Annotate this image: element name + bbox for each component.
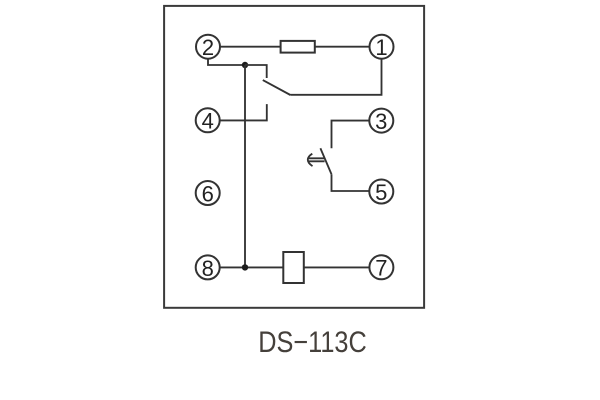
svg-text:5: 5 [375,180,387,205]
wire node A to fixed contact stub [245,65,267,78]
wire terminal 2 down to node A [208,59,245,65]
wire terminal 1 down to blade K1 [290,59,381,95]
svg-text:2: 2 [202,35,214,60]
svg-text:3: 3 [375,109,387,134]
terminal 1 [370,35,394,60]
svg-text:1: 1 [375,35,387,60]
wire terminal 8 to coil [220,266,284,268]
wire resistor to terminal 1 [315,46,370,48]
svg-text:7: 7 [375,256,387,281]
wire blade K2 to terminal 5 [332,174,370,191]
terminal 6 (unconnected) [196,181,220,206]
svg-text:4: 4 [202,109,214,134]
wire terminal 2 to resistor R [220,46,281,48]
terminal 5 [369,180,393,205]
terminal 8 [196,255,220,280]
svg-text:8: 8 [202,256,214,281]
node A junction dot [242,62,248,68]
wire coil to terminal 7 [304,266,370,268]
coil KA (8-7) [283,252,304,283]
svg-text:DS−113C: DS−113C [258,326,367,359]
resistor R (2-1) [281,41,315,53]
contact blade K1 (closed, between node A stub and wire from 1) [263,80,291,95]
terminal 3 [369,109,393,134]
node B junction dot [242,264,248,270]
terminal 4 [196,108,220,133]
terminal 2 [196,35,220,60]
enclosure border frame [164,6,424,308]
actuator arrow on K2 [308,154,325,166]
wire node A down to node B [244,65,246,267]
svg-text:6: 6 [202,181,214,206]
terminal 7 [369,255,393,280]
open contact stub for terminal 4 [220,104,267,120]
wire terminal 3 to contact K2 fixed stub [332,121,370,149]
contact blade K2 (open, 3-5) [320,148,331,174]
